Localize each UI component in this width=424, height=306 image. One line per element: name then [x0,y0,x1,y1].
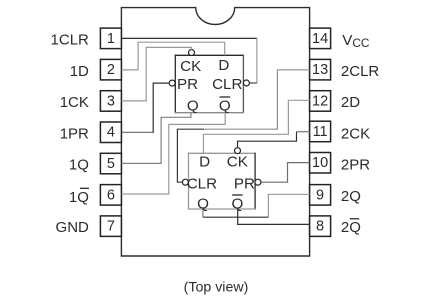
svg-text:CLR: CLR [187,175,217,192]
pin 3 box [100,91,121,112]
svg-text:1Q: 1Q [69,189,89,206]
pin 13 box [310,59,331,80]
svg-text:Q: Q [219,98,231,115]
svg-text:2CK: 2CK [341,125,370,142]
svg-text:2Q: 2Q [341,188,361,205]
wire pin6 1Q-bar to U1 Q-bar output [121,113,225,194]
pin 10 box [310,153,331,174]
pin 8 box [310,216,331,237]
pin 2 box [100,59,121,80]
U1 CLR inversion bubble [243,80,249,86]
svg-text:14: 14 [312,31,328,47]
svg-text:1CLR: 1CLR [51,32,90,49]
flip-flop U1 box [175,55,244,114]
svg-text:1CK: 1CK [60,94,89,111]
svg-text:13: 13 [312,62,328,78]
svg-text:VCC: VCC [342,32,370,50]
wire pin3 1CK to U1 CK bubble [121,47,191,101]
svg-text:12: 12 [312,93,328,109]
pin 11 box [310,121,331,142]
svg-text:9: 9 [316,187,324,203]
wire pin10 2PR to U2 PR bubble [261,163,310,183]
svg-text:CK: CK [227,153,248,170]
wire pin9 2Q upper segments [268,194,309,217]
wire pin11 2CK horizontal from pin [297,131,310,133]
svg-text:(Top view): (Top view) [184,279,249,295]
wire pin1 1CLR horizontal segment [121,37,257,39]
wire pin9 2Q bottom segment [203,216,269,218]
wire pin5 1Q to U1 Q output [121,113,190,164]
svg-text:GND: GND [56,219,90,236]
svg-text:D: D [199,153,210,170]
svg-text:8: 8 [316,219,324,235]
flip-flop U2 box [188,153,256,210]
U1 CK inversion bubble [189,50,195,56]
pin 6 box [100,185,121,206]
svg-text:3: 3 [107,93,115,109]
svg-text:PR: PR [177,76,198,93]
pin 7 box [100,216,121,237]
wire pin1 1CLR into U1 CLR bubble [249,82,257,84]
svg-text:6: 6 [107,187,115,203]
pin 12 box [310,91,331,112]
svg-text:7: 7 [107,219,115,235]
svg-text:PR: PR [234,175,255,192]
U1 label Q-bar [219,97,231,115]
U2 label Q-bar [231,195,243,212]
svg-text:4: 4 [107,125,115,141]
wire pin4 1PR vertical and into U1 PR bubble [153,83,169,133]
wire pin13 2CLR upper segments [204,70,310,129]
U2 CLR inversion bubble [182,179,188,185]
svg-text:Q: Q [187,98,199,115]
wire pin1 1CLR vertical segment [256,38,258,83]
pin 4 box [100,122,121,143]
label 1Q-bar [69,188,89,206]
svg-text:2CLR: 2CLR [341,63,380,80]
pin 5 box [100,153,121,174]
svg-text:10: 10 [312,155,328,171]
wire pin11 2CK into U2 CK bubble [238,132,297,148]
wire pin9 2Q into U2 Q output [202,209,204,217]
svg-text:D: D [218,57,229,74]
label 2Q-bar [341,219,361,236]
U1 PR inversion bubble [169,80,175,86]
svg-text:11: 11 [313,124,328,140]
svg-text:CK: CK [180,58,201,75]
wire pin8 2Q-bar to U2 Q-bar output [238,209,310,224]
wire pin12 2D to U2 D input [203,100,309,153]
svg-text:1D: 1D [70,63,89,80]
U2 CK inversion bubble [235,148,241,154]
U2 PR inversion bubble [255,179,261,185]
wire pin2 1D to U1 D input [121,42,224,70]
svg-text:1PR: 1PR [60,125,89,142]
svg-text:5: 5 [107,156,115,172]
svg-text:2: 2 [107,62,115,78]
pin 9 box [310,185,331,206]
svg-text:CLR: CLR [212,76,242,93]
svg-text:1Q: 1Q [69,157,89,174]
svg-text:2Q: 2Q [341,219,361,236]
IC package body outline with index notch [121,8,309,256]
pin 1 box [100,28,121,48]
svg-text:2D: 2D [341,94,360,111]
wire pin4 1PR horizontal segment [121,131,153,133]
svg-text:1: 1 [107,31,115,47]
wire pin13 2CLR lower segments into U2 CLR bubble [177,129,204,182]
pin 14 box [310,28,331,48]
svg-text:2PR: 2PR [341,157,370,174]
